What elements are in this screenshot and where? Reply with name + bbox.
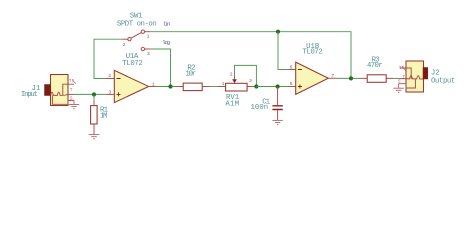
ground R1 [89,135,100,139]
node junction lin/U1B pin6 [276,30,280,34]
svg-text:470r: 470r [367,62,383,70]
node junction wiper [254,84,258,88]
wire R3 to J2 [394,78,399,80]
svg-text:3: 3 [147,51,150,57]
svg-text:TN: TN [399,65,405,71]
svg-text:S: S [70,95,73,101]
connector J2 [399,61,428,92]
node junction R1 top [92,92,96,96]
svg-text:T: T [402,74,405,80]
ground J2 sleeve [393,84,403,93]
wire U1B output [337,77,360,79]
node junction U1A out [168,84,172,88]
wire RV1 wiper to node [235,65,257,86]
svg-text:lin: lin [163,21,171,28]
svg-text:Output: Output [431,77,455,85]
op-amp U1A [106,70,157,102]
svg-text:1: 1 [222,81,225,87]
svg-text:7: 7 [331,73,334,79]
svg-text:5: 5 [290,81,293,87]
wire log: SW1 pin3 to U1A output node [151,49,171,87]
svg-text:TL072: TL072 [303,49,323,57]
svg-text:SPDT on-on: SPDT on-on [117,20,157,28]
resistor R1 [91,101,98,134]
svg-text:2: 2 [230,71,233,77]
svg-text:10r: 10r [185,71,196,79]
wire node to U1B pin5 [256,86,287,88]
op-amp U1B [288,62,337,94]
wire junction down to U1B pin6 [278,32,288,70]
svg-text:log: log [162,39,170,46]
wire R2 to RV1 [210,86,217,88]
svg-text:2: 2 [108,73,111,79]
wire junction down to R1 [93,95,95,101]
svg-text:TN: TN [69,78,75,84]
potentiometer RV1 [218,75,257,91]
wire U1A output [157,86,176,88]
svg-text:2: 2 [123,42,126,48]
svg-text:A1M: A1M [225,100,239,108]
capacitor C1 [272,87,282,120]
wire J1-T to U1A pin3 [74,93,106,95]
ground J1 sleeve [69,100,79,108]
svg-text:6: 6 [290,64,293,70]
svg-text:Input: Input [21,91,38,99]
wire U1A pin2 feedback loop [94,39,122,78]
resistor R3 [359,75,394,83]
svg-text:100n: 100n [251,104,269,112]
node junction feedback/R3 [349,76,353,80]
resistor R2 [175,83,210,91]
svg-text:3: 3 [249,78,252,84]
svg-text:3: 3 [108,89,111,95]
svg-text:TL072: TL072 [122,60,143,68]
svg-text:1: 1 [152,82,155,88]
svg-text:J2: J2 [431,69,440,77]
ground C1 [272,120,282,124]
wire lin: SW1 pin1 to feedback node [151,32,351,79]
switch SW1 [122,30,150,51]
svg-text:1: 1 [147,34,150,40]
node junction C1 top [276,84,280,88]
svg-text:1M: 1M [100,113,107,121]
svg-text:T: T [70,87,73,93]
connector J1 [45,75,75,106]
